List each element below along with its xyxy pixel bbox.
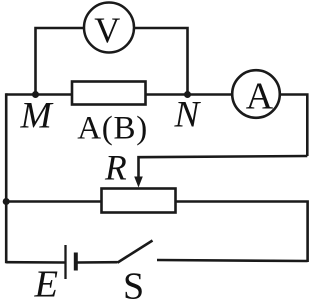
node M <box>32 91 39 98</box>
battery E <box>66 245 76 279</box>
svg-text:R: R <box>104 148 127 188</box>
wire <box>6 93 72 96</box>
svg-text:V: V <box>94 10 120 50</box>
wire <box>6 261 64 264</box>
svg-text:M: M <box>20 96 54 137</box>
svg-text:N: N <box>174 95 202 136</box>
resistor A(B) <box>72 82 147 147</box>
voltmeter V <box>84 3 134 53</box>
slider arrow <box>134 177 143 188</box>
node junction (left) <box>3 198 10 205</box>
wire <box>78 261 118 264</box>
svg-text:E: E <box>34 264 59 299</box>
wire <box>134 28 188 95</box>
wire <box>139 156 308 180</box>
wire <box>5 93 8 263</box>
svg-text:A(B): A(B) <box>77 111 147 147</box>
rheostat R <box>102 189 176 213</box>
wire <box>176 202 308 263</box>
svg-text:S: S <box>123 266 144 299</box>
wire <box>280 95 308 157</box>
wire <box>157 260 308 261</box>
wire <box>36 28 85 95</box>
wire <box>6 200 101 203</box>
switch S <box>118 241 153 263</box>
svg-text:A: A <box>246 76 274 118</box>
node N <box>184 91 191 98</box>
wire <box>146 93 233 96</box>
ammeter A <box>232 70 280 118</box>
